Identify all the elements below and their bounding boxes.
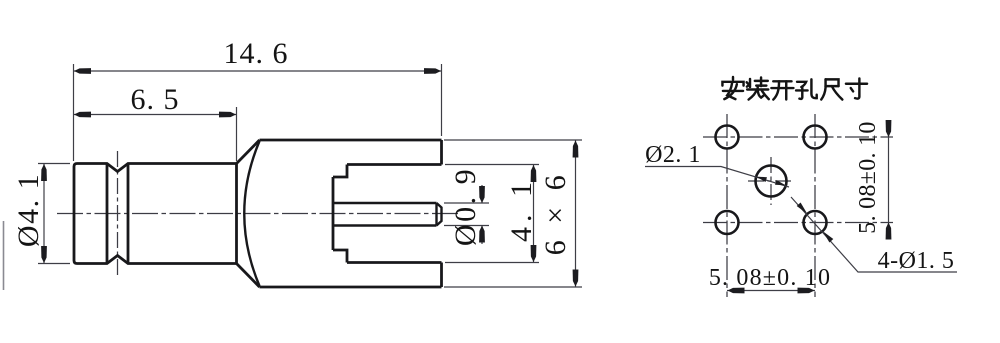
stray table border fragment at left edge (3, 221, 5, 290)
dimension 6.5 (74, 107, 237, 161)
slot bottom step (333, 250, 347, 263)
hole bottom-right (804, 211, 827, 234)
slot bottom inner edge (347, 261, 442, 264)
slot top step (333, 165, 347, 178)
main centerline of connector (57, 213, 459, 215)
svg-text:4. 1: 4. 1 (505, 177, 538, 242)
leader 4-Ø1.5 (791, 197, 957, 272)
hole pattern centerline bottom row (703, 222, 893, 224)
hole pattern centerline left column (726, 114, 728, 297)
svg-text:5. 08±0. 10: 5. 08±0. 10 (855, 121, 881, 233)
cylinder end edge (235, 164, 238, 264)
char 孔 (796, 79, 817, 98)
dimension 4.1 (445, 165, 539, 263)
slot top inner edge (347, 163, 442, 166)
center hole (756, 166, 787, 197)
svg-text:Ø4. 1: Ø4. 1 (12, 173, 45, 247)
hole pattern centerline top row (703, 136, 893, 138)
hole pattern centerline right column (814, 114, 816, 297)
char 开 (771, 81, 793, 99)
char 安 (722, 77, 743, 99)
dimension Ø0.9 (444, 185, 489, 244)
connector body outline: front cap and small cylinder (74, 140, 442, 287)
dimension Ø4.1 (38, 164, 70, 264)
hole top-left (716, 126, 739, 149)
dimension 5.08 bottom (727, 290, 815, 292)
flare cone arc (244, 141, 259, 286)
svg-text:14. 6: 14. 6 (224, 37, 289, 70)
slot floor (332, 177, 335, 250)
svg-text:6 × 6: 6 × 6 (539, 171, 572, 255)
dimension 14.6 (74, 64, 442, 161)
big body right face upper (440, 140, 443, 165)
big body top edge (260, 139, 442, 142)
svg-text:Ø2. 1: Ø2. 1 (645, 142, 701, 168)
big body bottom edge (260, 286, 442, 289)
dimension 5.08 right (888, 121, 890, 239)
groove edge line left (106, 164, 109, 264)
svg-text:5. 08±0. 10: 5. 08±0. 10 (709, 265, 831, 291)
char 寸 (846, 78, 867, 98)
center hole crosshair vertical (770, 157, 772, 205)
char 装 (747, 77, 769, 99)
title 安装开孔尺寸 (drawn strokes) (722, 77, 867, 100)
svg-text:Ø0. 9: Ø0. 9 (449, 167, 482, 246)
svg-text:6. 5: 6. 5 (131, 83, 180, 116)
center pin (333, 203, 442, 226)
flare cone slant bottom (237, 264, 260, 288)
char 尺 (821, 79, 842, 99)
groove edge line right (127, 164, 130, 264)
big body right face lower (440, 263, 443, 288)
hole top-right (804, 126, 827, 149)
leader Ø2.1 (645, 167, 789, 188)
hole bottom-left (716, 211, 739, 234)
flare cone slant top (237, 140, 260, 164)
groove centerline (117, 151, 119, 277)
dimension 6x6 (444, 140, 582, 287)
center hole crosshair horizontal (748, 180, 794, 182)
svg-text:4-Ø1. 5: 4-Ø1. 5 (878, 248, 955, 274)
